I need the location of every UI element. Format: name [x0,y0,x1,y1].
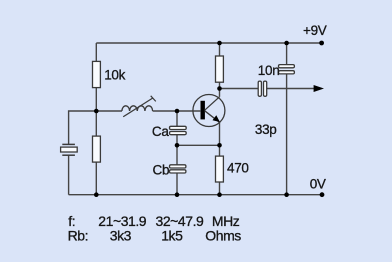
svg-text:0V: 0V [310,176,326,191]
svg-text:3k3: 3k3 [110,227,132,243]
node: bottom rail 10n [284,192,289,197]
wire: 10n branch upper lead [286,43,288,65]
capacitor Cb [170,165,186,173]
wire: Ca to mid node [176,135,178,146]
capacitor 33p (output coupling) [258,81,267,96]
wire: 470 lower lead [219,182,221,195]
inductor L1 adjustable [122,96,156,117]
capacitor 10n (supply decoupling) [279,65,295,74]
wire: Cb upper lead [176,145,178,165]
output arrow [314,85,324,92]
wire: Rb upper lead [95,111,97,136]
wire: 10k branch upper lead [95,43,97,62]
wire: inductor to Ca node to transistor base [153,110,201,112]
resistor 10k [93,61,101,87]
wire: crystal lower lead [68,155,70,195]
svg-text:10n: 10n [258,63,280,78]
node: bottom rail 470 [217,192,222,197]
resistor Rb [93,136,101,162]
wire: +9V top rail [96,42,321,44]
power terminal +9V [319,41,324,46]
node: bottom rail Cb [175,192,180,197]
svg-text:1k5: 1k5 [161,227,183,243]
svg-text:+9V: +9V [303,23,327,38]
wire: output line 33p to arrow [267,88,315,90]
node: base junction [94,109,99,114]
wire: 10k branch lower lead to base node [95,87,97,111]
svg-text:470: 470 [227,160,249,175]
node: emitter mid junction [217,143,222,148]
node: top rail 10n branch [284,41,289,46]
wire: output line collector to 33p [220,88,259,90]
wire: collector load resistor lower lead [219,82,221,89]
svg-text:10k: 10k [104,68,125,83]
transistor Q1 [193,95,225,127]
wire: 0V bottom rail [69,194,322,196]
svg-text:Rb:: Rb: [68,227,88,243]
wire: 10n branch lower lead to 0V rail [286,74,288,195]
wire: collector vertical into transistor [219,89,221,97]
ground terminal 0V [320,192,325,197]
node: top rail collector branch [217,41,222,46]
wire: emitter vertical down to mid node [219,122,221,145]
capacitor Ca [170,126,187,134]
svg-text:Cb: Cb [153,163,170,178]
node: Ca/Cb mid junction [175,143,180,148]
wire: 470 upper lead [219,145,221,156]
wire: collector load resistor upper lead [219,43,221,56]
crystal X1 [61,144,78,155]
wire: mid link Ca/Cb to emitter [177,144,220,146]
svg-text:Ohms: Ohms [205,227,241,243]
node: bottom rail Rb [94,192,99,197]
wire: base line from crystal corner to node [69,111,122,145]
wire: Ca upper lead [176,111,178,126]
wire: Cb lower lead [176,173,178,195]
svg-text:Ca: Ca [152,124,169,139]
wire: Rb lower lead [95,162,97,195]
svg-text:33p: 33p [255,122,277,137]
node: collector output junction [217,86,222,91]
resistor collector load [216,56,224,82]
node: inductor/Ca junction [175,109,180,114]
resistor 470 [216,156,224,182]
